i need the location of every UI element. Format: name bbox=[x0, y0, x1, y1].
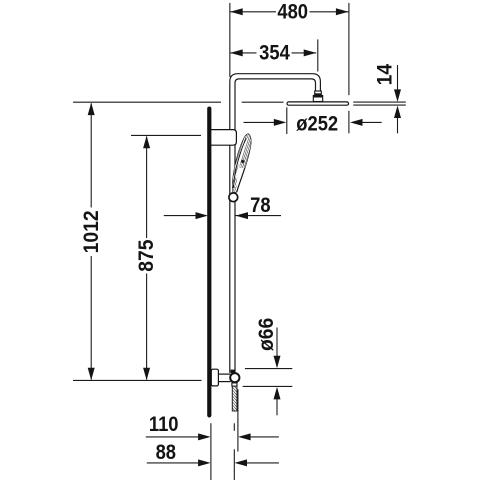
svg-text:ø66: ø66 bbox=[256, 318, 279, 351]
riser pipe end stub bbox=[231, 370, 236, 374]
svg-text:480: 480 bbox=[277, 1, 308, 24]
dimension o66 bbox=[243, 318, 293, 416]
dimension 354 bbox=[230, 41, 316, 64]
riser pipe and shower arm bbox=[230, 74, 321, 373]
dimension 1012 bbox=[80, 103, 103, 381]
extension line 480 left bbox=[229, 3, 231, 77]
dimension 875 bbox=[136, 136, 159, 380]
wall extension line bottom bbox=[210, 423, 212, 480]
top reference line bbox=[73, 101, 283, 103]
slider bracket bbox=[211, 130, 237, 146]
hose outer reference line bbox=[237, 389, 239, 451]
dimension o252 bbox=[244, 112, 382, 135]
dimension 480 bbox=[230, 1, 348, 24]
dimension 110 bbox=[146, 413, 279, 440]
svg-text:78: 78 bbox=[250, 194, 270, 217]
extension line 480 right bbox=[348, 3, 350, 133]
hose bbox=[232, 386, 237, 411]
extension line 354 right bbox=[317, 39, 319, 71]
dimension 78 bbox=[164, 194, 281, 219]
shower arm nut bbox=[313, 91, 322, 102]
hand shower bbox=[229, 130, 254, 193]
bottom reference line bbox=[73, 379, 202, 381]
svg-text:1012: 1012 bbox=[80, 210, 103, 253]
svg-text:88: 88 bbox=[156, 441, 176, 464]
connector pipe bbox=[218, 374, 230, 382]
hose neck bbox=[232, 383, 237, 386]
svg-text:110: 110 bbox=[149, 413, 179, 436]
hose ball joint bbox=[230, 373, 239, 382]
dimension 14 bbox=[374, 63, 401, 133]
svg-text:354: 354 bbox=[259, 41, 290, 64]
extension line o252 left bbox=[286, 107, 288, 134]
svg-text:14: 14 bbox=[374, 63, 397, 85]
mid reference line 875 bbox=[131, 134, 201, 136]
slider ball bbox=[229, 193, 238, 202]
svg-text:ø252: ø252 bbox=[296, 112, 338, 135]
plate edge extension lines bbox=[353, 102, 406, 105]
wall bar bbox=[207, 107, 211, 418]
shower head plate bbox=[287, 102, 349, 105]
svg-text:875: 875 bbox=[136, 239, 159, 271]
dimension 88 bbox=[147, 441, 279, 466]
supply elbow bbox=[211, 369, 218, 386]
center line bbox=[233, 423, 235, 480]
